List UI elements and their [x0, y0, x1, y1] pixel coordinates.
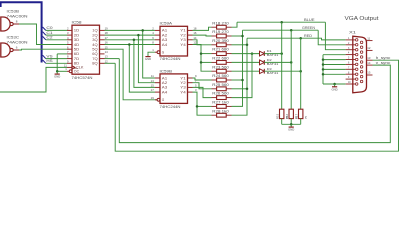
junction gnd bus: [322, 63, 325, 66]
diode D3 BAT41: [260, 69, 265, 74]
svg-text:R18 270: R18 270: [212, 21, 229, 25]
wire tap 2Q -> IC59B A2: [138, 35, 155, 83]
IC58 pin 3 2D: [67, 34, 72, 36]
wire D2 cathode -> GREEN vert: [264, 61, 291, 63]
wire IC58 8Q -> h_sync wrap: [105, 62, 116, 64]
bus ripper / net HS: [43, 60, 46, 63]
wire termination common: [282, 123, 301, 125]
svg-text:6D: 6D: [74, 52, 80, 56]
svg-text:R17: R17: [294, 113, 298, 119]
wire IC58 2Q -> IC59A A2: [105, 34, 156, 36]
wire GREEN -> X1 pin2: [318, 30, 345, 45]
wire h_sync (1Q -> X1 pin13): [115, 60, 398, 151]
svg-text:74HC244N: 74HC244N: [160, 57, 181, 61]
svg-text:Y4: Y4: [180, 90, 186, 94]
wire C1 -> IC58: [46, 34, 67, 36]
IC58 pin 11 CLK: [67, 66, 72, 68]
wire gnd bus -> X1 pin at y=74.3: [323, 73, 346, 75]
X1 pin 13: [367, 59, 373, 61]
svg-text:5Q: 5Q: [92, 48, 98, 52]
junction gnd bus: [322, 58, 325, 61]
junction R24/GREEN: [241, 79, 244, 82]
svg-text:19: 19: [151, 96, 155, 100]
svg-text:R24 560: R24 560: [212, 74, 229, 78]
svg-text:13: 13: [367, 56, 371, 60]
X1 pin 8: [346, 73, 356, 75]
X1 pin 7: [346, 68, 356, 70]
svg-text:74HC244N: 74HC244N: [160, 105, 181, 109]
svg-text:IC59A: IC59A: [160, 21, 173, 25]
IC59A pin Y2: [188, 34, 193, 36]
wire IC59B Y3 -> R26: [193, 87, 212, 97]
wire BLUE net: [237, 21, 325, 23]
svg-text:8Q: 8Q: [92, 62, 98, 66]
svg-text:3Q: 3Q: [92, 38, 98, 42]
buffer IC59A 74HC244N: [160, 26, 188, 56]
svg-text:1D: 1D: [74, 29, 80, 33]
resistor R28 1k0: [212, 114, 217, 116]
svg-text:R22 680: R22 680: [212, 57, 229, 61]
nand gate IC53C 74AC00N: [1, 43, 10, 57]
IC59B pin A1: [155, 77, 160, 79]
svg-text:14: 14: [105, 50, 109, 54]
svg-text:R23 560: R23 560: [212, 65, 229, 69]
X1 pin 14: [367, 64, 373, 66]
junction R25/RED: [246, 88, 249, 91]
svg-text:12: 12: [105, 59, 109, 63]
X1 pin 2: [346, 44, 356, 46]
junction 3Q tap: [133, 39, 136, 42]
wire CLK net (to left edge): [0, 67, 67, 92]
junction Y4/R21: [200, 52, 203, 55]
svg-text:13: 13: [105, 55, 109, 59]
svg-text:R15: R15: [275, 113, 279, 119]
svg-text:2Q: 2Q: [92, 33, 98, 37]
wire gnd bus -> X1 pin at y=59.6: [323, 59, 346, 61]
X1 right pin circles: [360, 41, 363, 44]
wire RED net: [247, 38, 346, 40]
X1 pin 10: [346, 83, 356, 85]
svg-text:HS: HS: [46, 59, 53, 63]
svg-text:C1: C1: [46, 31, 52, 35]
svg-text:14: 14: [367, 61, 371, 65]
IC59A pin A4: [155, 44, 160, 46]
resistor R24 560: [212, 79, 217, 81]
X1 pin 6: [346, 63, 356, 65]
junction Y4/R22: [200, 61, 203, 64]
wire IC59A G -> ground: [148, 52, 155, 54]
IC58 pin 12 8Q: [100, 62, 105, 64]
svg-text:18: 18: [193, 27, 197, 31]
svg-text:R16: R16: [285, 113, 289, 119]
wire GREEN net R19/R24/R27 tap: [232, 35, 243, 37]
resistor R23 560: [212, 70, 217, 72]
wire R22 -> D2 anode: [232, 61, 260, 63]
junction BLUE/term: [280, 21, 283, 24]
X1 pin 11: [367, 40, 373, 42]
svg-text:A2: A2: [162, 81, 168, 85]
svg-text:RED: RED: [304, 34, 313, 38]
wire v_sync (2Q -> X1 pin14): [119, 59, 390, 143]
wire IC59A Y4 -> R21/R22/R23: [193, 45, 212, 72]
svg-text:12: 12: [367, 46, 371, 50]
svg-text:15: 15: [367, 71, 371, 75]
IC59A pin A1: [155, 29, 160, 31]
resistor R19 270: [212, 35, 217, 37]
svg-text:h_sync: h_sync: [376, 56, 391, 60]
junction Y4/R27: [196, 105, 199, 108]
wire R23 -> D3 anode: [232, 70, 260, 72]
register IC58 74HC574N: [72, 25, 100, 74]
X1 pin 4: [346, 54, 356, 56]
resistor R21 680: [212, 53, 217, 55]
IC59B pin 19 G: [157, 98, 160, 101]
ground GND1: [56, 71, 58, 74]
wire X1 ground bus: [323, 54, 346, 56]
IC58 pin 8 7D: [67, 58, 72, 60]
junction R20/RED: [246, 44, 249, 47]
svg-text:6Q: 6Q: [92, 52, 98, 56]
IC58 pin 18 2Q: [100, 34, 105, 36]
wire IC59B Y1 -> R24: [193, 78, 212, 80]
wire gnd bus -> X1 pin at y=64.5: [323, 64, 346, 66]
svg-text:1Q: 1Q: [92, 29, 98, 33]
svg-text:A3: A3: [162, 38, 168, 42]
svg-text:4Q: 4Q: [92, 43, 98, 47]
diode D2 BAT41: [260, 60, 265, 65]
wire IC58 1Q -> IC59A A1: [105, 29, 156, 31]
junction D2/GREEN: [290, 61, 293, 64]
IC58 pin 17 3Q: [100, 39, 105, 41]
wire IC59A Y1 -> R18: [193, 27, 212, 30]
svg-text:IC53C: IC53C: [7, 36, 20, 40]
svg-text:IC53B: IC53B: [7, 10, 20, 14]
buffer IC59B 74HC244N: [160, 74, 188, 104]
resistor R25 560: [212, 88, 217, 90]
svg-text:17: 17: [105, 36, 109, 40]
X1 pin 12: [367, 49, 373, 51]
X1 pin 3: [346, 49, 356, 51]
svg-text:v_sync: v_sync: [376, 61, 391, 65]
wire IC58 3Q -> IC59A A3: [105, 39, 156, 41]
IC59B pin Y2: [188, 82, 193, 84]
svg-text:C0: C0: [46, 26, 52, 30]
wire IC53C out -> IC58 5D: [19, 48, 67, 51]
svg-text:A1: A1: [162, 29, 168, 33]
svg-text:15: 15: [151, 84, 155, 88]
svg-text:A1: A1: [162, 76, 168, 80]
svg-text:17: 17: [151, 88, 155, 92]
IC58 pin 4 3D: [67, 39, 72, 41]
nand gate IC53B 74AC00N: [1, 17, 10, 31]
IC59B pin Y3: [188, 86, 193, 88]
svg-text:R28 1k0: R28 1k0: [212, 109, 229, 113]
svg-text:Y2: Y2: [180, 33, 186, 37]
wire IC59B Y2 -> R25: [193, 83, 212, 89]
wire IC59B Y4 -> R27/R28: [193, 92, 212, 115]
svg-text:11: 11: [367, 36, 370, 40]
svg-text:R26 560: R26 560: [212, 92, 229, 96]
svg-text:Y3: Y3: [180, 38, 186, 42]
svg-text:7Q: 7Q: [92, 57, 98, 61]
junction RED/term: [299, 37, 302, 40]
junction gnd bus: [322, 68, 325, 71]
IC58 pin 7 6D: [67, 53, 72, 55]
svg-text:R20 390: R20 390: [212, 39, 229, 43]
svg-text:Y4: Y4: [180, 43, 186, 47]
svg-text:19: 19: [105, 27, 109, 31]
svg-text:A4: A4: [162, 90, 168, 94]
resistor R18 270: [212, 26, 217, 28]
svg-text:15: 15: [105, 45, 109, 49]
svg-text:GND: GND: [288, 128, 294, 132]
junction 4Q tap: [128, 43, 131, 46]
junction term/GND: [290, 123, 293, 126]
wire RGB vertical R15: [281, 22, 283, 109]
wire D3 cathode -> RED vert: [264, 70, 300, 72]
wire IC53B out -> IC58 4D: [19, 24, 67, 45]
svg-text:11: 11: [151, 74, 154, 78]
svg-text:74AC00N: 74AC00N: [7, 14, 29, 18]
junction D3/RED: [299, 70, 302, 73]
svg-text:IC59B: IC59B: [160, 69, 173, 73]
ground GND5: [334, 84, 336, 87]
svg-text:R25 560: R25 560: [212, 83, 229, 87]
svg-text:IC58: IC58: [72, 20, 82, 24]
wire gnd bus -> X1 pin at y=69.4: [323, 68, 346, 70]
svg-text:C2: C2: [46, 36, 52, 40]
svg-text:Y2: Y2: [180, 81, 186, 85]
svg-text:GREEN: GREEN: [302, 26, 316, 30]
IC59B pin Y1: [188, 77, 193, 79]
wire GREEN net: [243, 29, 319, 31]
junction GREEN/term: [290, 29, 293, 32]
bus B1 (C0..C2, VS, HS): [1, 2, 42, 62]
svg-text:BLUE: BLUE: [304, 18, 315, 22]
X1 pin 1: [346, 39, 356, 41]
svg-text:VGA Output: VGA Output: [345, 16, 380, 22]
svg-text:16: 16: [105, 41, 109, 45]
IC59B pin A2: [155, 82, 160, 84]
wire HS -> IC58: [46, 62, 67, 64]
IC58 pin 2 1D: [67, 29, 72, 31]
junction 6D/OC/GND: [56, 70, 59, 73]
svg-text:Y3: Y3: [180, 86, 186, 90]
resistor R15 75: [280, 109, 284, 118]
svg-text:A2: A2: [162, 33, 168, 37]
wire tap 1Q -> IC59B A1: [143, 30, 155, 78]
svg-text:GND: GND: [145, 57, 151, 61]
svg-text:GND: GND: [331, 87, 337, 91]
junction gnd bus / GND5: [333, 83, 336, 86]
wire R21 -> D1 anode: [232, 53, 260, 55]
resistor R20 390: [212, 44, 217, 46]
svg-text:4D: 4D: [74, 43, 80, 47]
svg-text:VS: VS: [46, 54, 53, 58]
resistor R22 680: [212, 61, 217, 63]
IC59A pin 1 G: [157, 51, 160, 54]
IC59B pin A4: [155, 91, 160, 93]
junction 2Q tap: [137, 34, 140, 37]
svg-text:R19 270: R19 270: [212, 30, 229, 34]
wire R21/R26 join: [232, 54, 253, 98]
IC58 pin 6 5D: [67, 48, 72, 50]
IC58 pin 14 6Q: [100, 53, 105, 55]
IC59A pin Y4: [188, 44, 193, 46]
IC58 pin 5 4D: [67, 44, 72, 46]
svg-text:74AC00N: 74AC00N: [7, 40, 29, 44]
svg-text:16: 16: [193, 31, 197, 35]
X1 pin 15: [367, 74, 373, 76]
IC59A pin A3: [155, 39, 160, 41]
svg-text:Y1: Y1: [180, 76, 186, 80]
resistor R26 560: [212, 97, 217, 99]
wire IC58 4Q -> IC59A A4: [105, 44, 156, 46]
svg-text:OC: OC: [74, 70, 80, 74]
X1 pin 9: [346, 78, 356, 80]
wire tap 4Q -> IC59B A4: [129, 45, 155, 93]
IC59B pin Y4: [188, 91, 193, 93]
IC59A pin A2: [155, 34, 160, 36]
IC58 pin 9 8D: [67, 62, 72, 64]
wire RED net R20/R25/R28 tap: [232, 44, 248, 46]
svg-text:12: 12: [193, 41, 197, 45]
svg-text:13: 13: [151, 79, 155, 83]
IC58 pin 19 1Q: [100, 29, 105, 31]
svg-text:7D: 7D: [74, 57, 80, 61]
IC59A pin Y1: [188, 29, 193, 31]
wire RGB vertical R16: [290, 30, 292, 109]
svg-text:R21 680: R21 680: [212, 48, 229, 52]
svg-text:R27 1k0: R27 1k0: [212, 101, 229, 105]
IC59B pin A3: [155, 86, 160, 88]
ground GND2: [147, 54, 149, 57]
wire tap 3Q -> IC59B A3: [134, 40, 155, 88]
svg-text:14: 14: [193, 36, 197, 40]
wire IC59A Y3 -> R20: [193, 40, 212, 45]
IC59A pin Y3: [188, 39, 193, 41]
wire RGB vertical R17: [300, 38, 302, 109]
IC58 pin 16 4Q: [100, 44, 105, 46]
resistor R17 75: [299, 109, 303, 118]
svg-text:74HC574N: 74HC574N: [72, 76, 93, 80]
svg-text:X1: X1: [349, 30, 356, 34]
svg-text:3D: 3D: [74, 38, 80, 42]
wire C2 -> IC58: [46, 39, 67, 41]
junction 1Q tap: [141, 29, 144, 32]
bus ripper / net C0: [43, 27, 46, 30]
wire BLUE -> X1 pin3: [325, 22, 345, 50]
svg-text:2D: 2D: [74, 33, 80, 37]
bus ripper / net C1: [43, 32, 46, 35]
wire IC59A Y2 -> R19: [193, 34, 212, 37]
wire BLUE net R18 tap: [232, 22, 238, 27]
svg-text:A4: A4: [162, 43, 168, 47]
svg-text:A3: A3: [162, 86, 168, 90]
junction D1/BLUE: [280, 52, 283, 55]
wire D1 cathode -> BLUE vert: [264, 53, 281, 55]
bus ripper / net C2: [43, 36, 46, 39]
wire 6D/OC to ground: [57, 53, 67, 55]
X1 pin 5: [346, 59, 356, 61]
svg-text:5D: 5D: [74, 48, 80, 52]
junction R19/GREEN: [241, 35, 244, 38]
svg-text:Y1: Y1: [180, 29, 186, 33]
wire IC58 7Q -> v_sync wrap: [105, 58, 120, 60]
wire VS -> IC58: [46, 58, 67, 60]
diode D1 BAT41: [260, 51, 265, 56]
junction gnd bus: [322, 73, 325, 76]
wire IC58 5Q -> IC59B G: [105, 49, 158, 100]
IC58 pin 13 7Q: [100, 58, 105, 60]
IC58 pin 1 OC: [67, 70, 69, 72]
ground GND4: [290, 124, 292, 127]
bus ripper / net VS: [43, 55, 46, 58]
svg-text:18: 18: [105, 31, 109, 35]
resistor R16 75: [289, 109, 293, 118]
svg-text:GND: GND: [54, 75, 60, 79]
resistor R27 1k0: [212, 105, 217, 107]
wire C0 -> IC58: [46, 29, 67, 31]
svg-text:75: 75: [304, 115, 308, 119]
IC58 pin 15 5Q: [100, 48, 105, 50]
